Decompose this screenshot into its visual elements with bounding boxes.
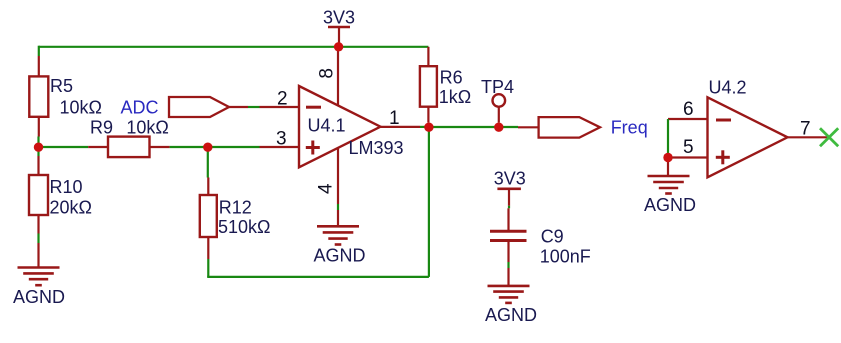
test point TP4 <box>481 77 514 123</box>
resistor R6 <box>420 47 471 123</box>
svg-text:4: 4 <box>316 183 337 194</box>
svg-text:6: 6 <box>683 99 694 120</box>
ground AGND (U4.2) <box>644 158 696 216</box>
junction node U4.2 inputs <box>663 153 672 162</box>
wire: mid junction down to R12 <box>207 147 209 178</box>
junction node mid (R9/R12/pin3) <box>203 143 212 152</box>
svg-text:100nF: 100nF <box>540 247 591 267</box>
svg-text:20kΩ: 20kΩ <box>50 198 92 218</box>
op-amp U4.2 <box>668 78 829 178</box>
svg-text:ADC: ADC <box>121 98 159 118</box>
ground AGND (under C9) <box>485 268 537 325</box>
svg-text:C9: C9 <box>541 227 564 247</box>
junction node left (R5/R9/R10) <box>34 143 43 152</box>
junction node TP4 <box>494 123 503 132</box>
svg-text:AGND: AGND <box>485 305 537 325</box>
svg-text:TP4: TP4 <box>481 77 514 97</box>
resistor R9 <box>88 118 169 158</box>
wire: C9 to ground <box>507 262 509 268</box>
svg-text:7: 7 <box>800 119 811 140</box>
svg-text:8: 8 <box>317 68 338 79</box>
wire: feedback bottom run <box>207 127 429 277</box>
svg-text:AGND: AGND <box>314 246 366 266</box>
wire: ADC to pin2 <box>248 106 260 108</box>
wire: TP4 junction to Freq <box>499 126 518 128</box>
svg-text:10kΩ: 10kΩ <box>126 118 168 138</box>
wire: R10 to ground <box>37 234 39 244</box>
resistor R10 <box>29 156 92 234</box>
svg-text:AGND: AGND <box>644 195 696 215</box>
svg-text:1kΩ: 1kΩ <box>439 87 471 107</box>
svg-text:2: 2 <box>277 89 288 110</box>
junction node output (pin1/R6/feedback) <box>424 123 433 132</box>
ground AGND (under U4.1) <box>314 210 366 266</box>
svg-text:3V3: 3V3 <box>494 168 526 188</box>
svg-text:LM393: LM393 <box>349 138 404 158</box>
wire: R9 to mid junction <box>170 146 208 148</box>
svg-text:3: 3 <box>276 129 287 150</box>
svg-text:R10: R10 <box>50 177 83 197</box>
svg-text:R6: R6 <box>440 67 463 87</box>
svg-text:AGND: AGND <box>13 287 65 307</box>
wire: pin4 to ground <box>337 204 339 210</box>
wire: top 3V3 rail <box>39 46 429 48</box>
junction at 3V3 rail <box>334 42 343 51</box>
svg-text:U4.1: U4.1 <box>308 116 346 136</box>
op-amp U4.1 <box>260 47 421 204</box>
svg-text:Freq: Freq <box>611 118 648 138</box>
svg-text:1: 1 <box>389 108 400 129</box>
ground AGND (left) <box>13 243 65 307</box>
wire: left junction down to R10 <box>37 147 39 156</box>
resistor R5 <box>29 56 102 137</box>
svg-text:U4.2: U4.2 <box>709 78 747 98</box>
wire: 3V3 to C9 <box>508 206 510 209</box>
wire: R5 bottom to junction <box>37 137 39 148</box>
no-connect X on pin 7 <box>820 128 838 146</box>
power symbol 3V3 (top) <box>323 8 355 48</box>
svg-text:10kΩ: 10kΩ <box>60 98 102 118</box>
svg-text:R5: R5 <box>50 76 73 96</box>
hierarchical label Freq <box>518 117 648 138</box>
wire: left drop to R5 <box>38 46 40 56</box>
resistor R12 <box>200 178 271 260</box>
svg-text:R9: R9 <box>90 118 113 138</box>
svg-text:3V3: 3V3 <box>323 8 355 28</box>
wire: pin6 to pin5 <box>667 119 669 158</box>
hierarchical label ADC <box>121 97 249 118</box>
capacitor C9 <box>490 208 591 266</box>
wire: output junction to TP4 junction <box>429 126 499 128</box>
svg-text:R12: R12 <box>219 198 252 218</box>
power symbol 3V3 (C9 branch) <box>494 168 526 205</box>
wire: output pin1 to junction <box>420 126 429 128</box>
svg-text:510kΩ: 510kΩ <box>218 217 271 237</box>
svg-text:5: 5 <box>683 137 694 158</box>
wire: mid junction to pin3 <box>208 146 260 148</box>
wire: junction to R9 <box>39 146 89 148</box>
